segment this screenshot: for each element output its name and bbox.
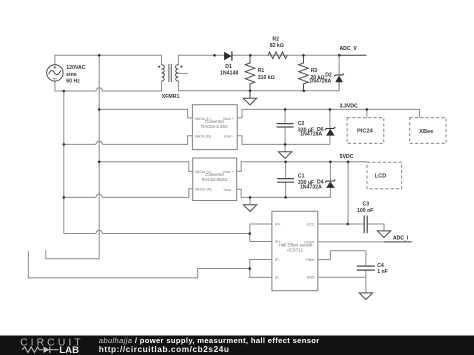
converter U2 box RAC02-05SC bbox=[193, 158, 237, 201]
label D6 1N4728A bbox=[300, 127, 323, 138]
wire row2 bottom rail bbox=[237, 189, 331, 197]
wire VCC drop from 5VDC bbox=[347, 162, 349, 224]
wire C4 top branch bbox=[365, 251, 367, 266]
wire C2 bottom branch bbox=[284, 128, 286, 145]
label C3 100nF bbox=[357, 201, 373, 214]
svg-text:D2: D2 bbox=[325, 72, 332, 78]
junction dot bottom rail N-bus bbox=[63, 90, 66, 93]
junction dot VCC drop bbox=[347, 161, 350, 164]
voltage source V1 circle bbox=[47, 65, 63, 81]
svg-text:C2: C2 bbox=[298, 121, 305, 127]
wire row1 ground stub bbox=[284, 144, 286, 151]
wire D4 top branch bbox=[329, 162, 331, 181]
junction dot conv2 N branch bbox=[63, 196, 66, 199]
wire IP- bracket bbox=[250, 260, 272, 278]
svg-text:R2: R2 bbox=[272, 36, 279, 42]
svg-text:Vout -: Vout - bbox=[224, 134, 235, 138]
svg-text:ADC_V: ADC_V bbox=[340, 46, 358, 52]
junction dot IP- bracket bbox=[249, 267, 252, 270]
wire 3.3VDC rail bbox=[237, 109, 419, 118]
wire row2 ground stub bbox=[249, 197, 251, 204]
transformer XFMR1 core bbox=[169, 64, 171, 82]
wire converter2 VACin L bbox=[99, 162, 193, 172]
svg-text:XFMR1: XFMR1 bbox=[162, 94, 180, 100]
svg-text:GND: GND bbox=[306, 276, 315, 280]
wire converter2 VACin N with hop bbox=[64, 189, 193, 198]
svg-text:120VAC: 120VAC bbox=[66, 65, 85, 71]
label D2 1N4728A bbox=[309, 72, 332, 84]
ground row2 bbox=[243, 205, 256, 212]
capacitor C2 bbox=[277, 124, 294, 127]
junction dot C1 top bbox=[284, 161, 287, 164]
wire row1 bottom rail bbox=[237, 136, 330, 145]
wire source bottom to primary bottom with hop bbox=[55, 81, 162, 91]
junction dot D2 top bbox=[338, 54, 341, 57]
svg-text:VCC: VCC bbox=[307, 223, 315, 227]
svg-text:310 kΩ: 310 kΩ bbox=[258, 75, 275, 81]
junction dot row2 ground bbox=[249, 196, 252, 199]
svg-text:ACS712: ACS712 bbox=[287, 247, 304, 252]
label R1 310 kohm bbox=[258, 68, 275, 81]
diode D1 bbox=[224, 51, 232, 60]
svg-text:http://circuitlab.com/cb2s24u: http://circuitlab.com/cb2s24u bbox=[99, 344, 230, 354]
wire IP+ feed horizontal with hop bbox=[64, 233, 250, 235]
ground under R1 bbox=[243, 91, 256, 105]
resistor R3 bbox=[299, 55, 309, 91]
junction dot R1 top bbox=[249, 54, 252, 57]
svg-text:VACin (N): VACin (N) bbox=[195, 187, 213, 191]
junction dot C2 top bbox=[284, 108, 287, 111]
wire IP+ bracket bbox=[250, 224, 272, 242]
wire top rail source to primary bbox=[55, 55, 162, 65]
svg-text:C1: C1 bbox=[298, 174, 305, 180]
junction dot C2 bottom bbox=[284, 143, 287, 146]
label 120VAC sine 60 Hz bbox=[66, 65, 85, 84]
svg-text:3.3VDC: 3.3VDC bbox=[340, 103, 358, 109]
junction dot top rail L-bus bbox=[98, 54, 101, 57]
zener diode D2 bbox=[334, 55, 344, 91]
wire PIC24 drop bbox=[366, 109, 368, 117]
capacitor C3 bbox=[364, 216, 367, 234]
transformer XFMR1 primary coil bbox=[162, 65, 165, 81]
wire D6 top branch bbox=[329, 109, 331, 128]
svg-text:ADC_I: ADC_I bbox=[393, 236, 409, 242]
hall effect sensor U3 box ACS712 bbox=[272, 211, 318, 290]
net flag ADC_I wire bbox=[384, 241, 412, 243]
svg-text:R3: R3 bbox=[311, 68, 318, 74]
svg-text:Filter: Filter bbox=[306, 258, 315, 262]
wire hop IP+ feed over L-bus bbox=[96, 230, 102, 233]
wire D1 cathode to D2 top bbox=[232, 54, 339, 56]
wire Filter pin elbow bbox=[318, 251, 366, 260]
wire converter1 VACin L bbox=[99, 109, 192, 118]
wire D6 bottom branch bbox=[329, 136, 331, 145]
wire C2 top branch bbox=[284, 109, 286, 123]
junction dot R3 bottom bbox=[303, 90, 306, 93]
svg-text:D1: D1 bbox=[225, 64, 232, 70]
svg-text:1N4728A: 1N4728A bbox=[309, 79, 331, 85]
wire hop conv1 N over L-bus bbox=[96, 141, 102, 144]
svg-text:IP-: IP- bbox=[275, 258, 281, 262]
junction dot R3 top bbox=[302, 54, 305, 57]
wire C1 top branch bbox=[285, 162, 287, 178]
svg-text:IP-: IP- bbox=[275, 276, 281, 280]
wire hop primary bottom over L-bus bbox=[96, 88, 102, 91]
svg-text:XBee: XBee bbox=[419, 129, 433, 135]
wire C3 right to ground bbox=[367, 224, 384, 231]
junction dot C1 bottom bbox=[284, 196, 287, 199]
wire IP- feed bbox=[28, 251, 249, 278]
svg-text:1N4732A: 1N4732A bbox=[300, 185, 322, 191]
net flag ADC_V wire bbox=[340, 54, 367, 56]
svg-text:RAC02-05SC: RAC02-05SC bbox=[202, 177, 228, 182]
junction dot VCC C3 bbox=[346, 223, 349, 226]
label R2 82 kohm bbox=[270, 36, 284, 49]
junction dot conv1 N branch bbox=[63, 143, 66, 146]
transformer XFMR1 phase dot primary bbox=[158, 66, 160, 68]
wire converter1 VACin N with hop bbox=[64, 136, 193, 145]
svg-text:1N4728A: 1N4728A bbox=[300, 132, 322, 138]
junction dot before D1 bbox=[213, 54, 216, 57]
wire N-bus vertical bbox=[63, 91, 65, 234]
zener diode D6 bbox=[325, 127, 335, 136]
footer logo resistor zigzag and diode bbox=[22, 346, 58, 353]
wire secondary top to D1 bbox=[178, 55, 224, 65]
ground right of C3 bbox=[377, 231, 390, 238]
wire L-bus vertical with stub end bbox=[46, 55, 99, 258]
svg-text:sine: sine bbox=[66, 72, 76, 78]
wire 5VDC rail bbox=[237, 162, 367, 172]
junction dot D6 top bbox=[329, 108, 332, 111]
svg-text:60 Hz: 60 Hz bbox=[66, 79, 80, 85]
wire D4 bottom branch bbox=[329, 188, 331, 198]
junction dot conv1 L branch bbox=[98, 108, 101, 111]
ground under C2 bbox=[278, 152, 291, 159]
svg-text:5VDC: 5VDC bbox=[340, 154, 354, 160]
wire C4 ground stub bbox=[365, 277, 367, 293]
XBee dashed box bbox=[410, 118, 446, 144]
svg-text:Vout +: Vout + bbox=[223, 117, 235, 121]
label C4 1nF bbox=[377, 263, 388, 275]
svg-text:IP+: IP+ bbox=[275, 223, 282, 227]
transformer XFMR1 phase dot secondary bbox=[181, 66, 183, 68]
label C1 330uF bbox=[298, 174, 314, 187]
svg-text:Vout -: Vout - bbox=[223, 188, 234, 192]
ground under C4 bbox=[359, 293, 372, 300]
junction dot PIC24 drop bbox=[366, 108, 369, 111]
wire hop conv2 N over L-bus bbox=[96, 194, 102, 197]
junction dot IP+ bracket bbox=[249, 232, 252, 235]
wire C4 bottom branch bbox=[365, 270, 367, 277]
LCD dashed box bbox=[367, 162, 402, 189]
label D1 1N4148 bbox=[220, 64, 238, 76]
svg-text:1 nF: 1 nF bbox=[377, 269, 388, 275]
junction dot R1 bottom bbox=[249, 90, 252, 93]
footer bar bbox=[0, 336, 474, 355]
wire GND pin bbox=[318, 276, 366, 278]
junction dot D4 top bbox=[329, 161, 332, 164]
svg-text:R1: R1 bbox=[258, 68, 265, 74]
svg-text:LAB: LAB bbox=[59, 345, 79, 355]
svg-text:PIC24: PIC24 bbox=[357, 128, 374, 134]
label C2 330uF bbox=[298, 121, 314, 134]
svg-text:82 kΩ: 82 kΩ bbox=[270, 43, 284, 49]
junction dot conv2 L branch bbox=[98, 161, 101, 164]
wire VOUT pin bbox=[318, 241, 384, 243]
svg-text:LCD: LCD bbox=[375, 174, 387, 180]
svg-text:RAC02-3.3SC: RAC02-3.3SC bbox=[201, 124, 228, 129]
label R3 20 kohm bbox=[310, 68, 324, 81]
transformer XFMR1 secondary coil bbox=[176, 65, 179, 81]
svg-text:100 nF: 100 nF bbox=[357, 208, 373, 214]
converter U1 box RAC02-3.3SC bbox=[192, 105, 237, 150]
svg-text:1N4148: 1N4148 bbox=[220, 70, 238, 76]
capacitor C4 bbox=[357, 266, 375, 270]
zener diode D4 bbox=[325, 180, 335, 188]
PIC24 dashed box bbox=[347, 118, 384, 144]
wire secondary bottom rail bbox=[178, 81, 339, 91]
capacitor C1 bbox=[277, 179, 294, 183]
svg-text:VACin (N): VACin (N) bbox=[195, 134, 213, 138]
resistor R2 bbox=[268, 52, 287, 59]
wire C1 bottom branch bbox=[285, 183, 287, 198]
wire transformer center tap stub bbox=[178, 72, 188, 74]
svg-text:C3: C3 bbox=[363, 201, 370, 207]
svg-text:Vout +: Vout + bbox=[223, 170, 235, 174]
label D4 1N4732A bbox=[300, 179, 324, 190]
wire VCC pin to C3 bbox=[318, 223, 364, 225]
resistor R1 bbox=[245, 55, 255, 91]
